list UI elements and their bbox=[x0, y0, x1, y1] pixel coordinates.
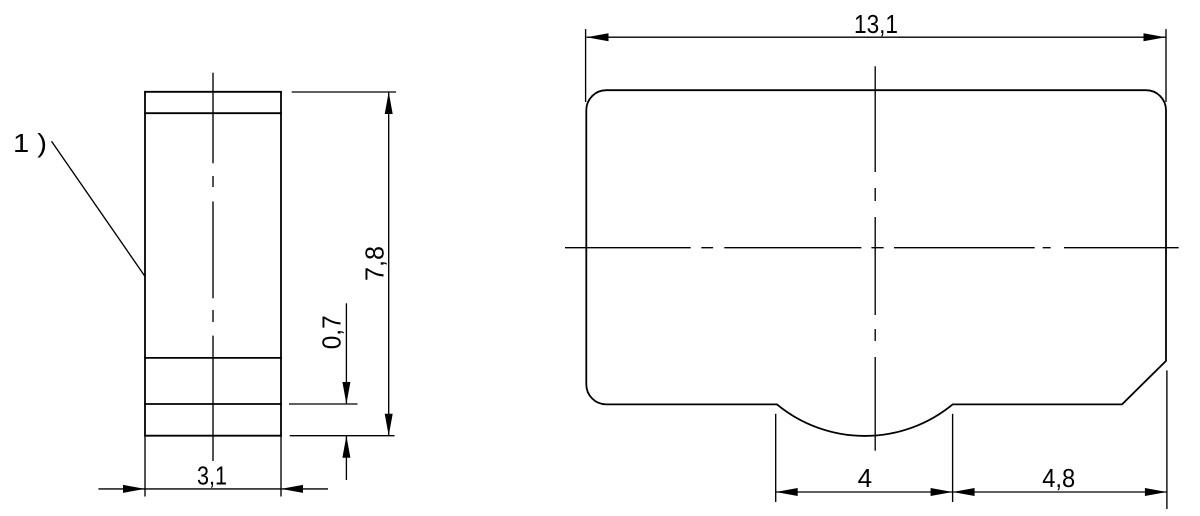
dimension 0,7 extension line bbox=[289, 403, 358, 405]
right view vertical centerline bbox=[874, 66, 876, 450]
svg-text:13,1: 13,1 bbox=[854, 9, 898, 39]
leader line for note 1 bbox=[52, 141, 145, 276]
dimension 13,1 extension lines bbox=[586, 29, 1166, 102]
svg-text:3,1: 3,1 bbox=[197, 461, 227, 491]
dimension 0,7 upper arrow bbox=[342, 382, 350, 404]
dimension 0,7 lower arrow bbox=[342, 436, 350, 458]
dimension 4,8 line bbox=[953, 491, 1167, 493]
svg-text:4,8: 4,8 bbox=[1042, 463, 1075, 493]
dimension 4,8 extension line bbox=[1166, 370, 1168, 509]
left view vertical centerline bbox=[212, 73, 214, 461]
dimension 0,7 upper line bbox=[345, 303, 347, 404]
dimension 7,8 bottom arrow bbox=[385, 414, 393, 436]
dimension 3,1 left arrow bbox=[123, 485, 145, 493]
left view body outline bbox=[144, 92, 282, 436]
dimension 4 line bbox=[776, 491, 953, 493]
dimension 7,8 line bbox=[388, 92, 390, 436]
dimension 13,1 right arrow bbox=[1144, 33, 1166, 41]
dimension 7,8 top arrow bbox=[385, 92, 393, 114]
dimension 3,1 extension lines bbox=[145, 436, 281, 497]
dimension 4 extension lines bbox=[776, 414, 953, 502]
svg-text:1 ): 1 ) bbox=[13, 128, 47, 158]
dimension 13,1 left arrow bbox=[587, 33, 609, 41]
svg-text:0,7: 0,7 bbox=[317, 315, 347, 349]
dimension 4 right arrow bbox=[931, 488, 953, 496]
svg-text:4: 4 bbox=[858, 463, 872, 493]
svg-text:7,8: 7,8 bbox=[360, 246, 390, 281]
right view body outline bbox=[586, 90, 1166, 436]
dimension 3,1 right arrow bbox=[281, 485, 303, 493]
dimension 0,7 lower line bbox=[345, 436, 347, 480]
dimension 13,1 line bbox=[587, 36, 1166, 38]
dimension 7,8 extension lines bbox=[290, 92, 396, 436]
right view horizontal centerline bbox=[565, 247, 1179, 249]
dimension 3,1 line bbox=[98, 488, 328, 490]
dimension 4 left arrow bbox=[776, 488, 798, 496]
dimension 4,8 right arrow bbox=[1145, 488, 1167, 496]
dimension 4,8 left arrow bbox=[953, 488, 975, 496]
